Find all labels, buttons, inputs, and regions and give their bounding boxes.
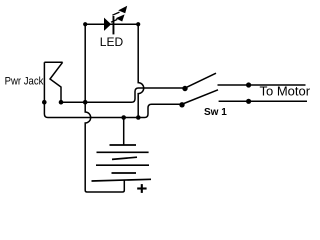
- wire top throw to motor: [218, 84, 306, 86]
- switch Sw1 bottom throw pin: [246, 99, 251, 104]
- junction LED cathode x W2: [136, 115, 141, 120]
- LED D1 cathode bar: [113, 16, 115, 34]
- node LED cathode corner: [136, 22, 140, 26]
- switch Sw1 bottom lever: [184, 90, 218, 104]
- wire bottom throw to motor: [219, 100, 307, 102]
- wire top (LED anode-cathode rail): [85, 23, 138, 25]
- wire right vertical (LED cathode down, with hop over switch wire): [138, 24, 144, 117]
- node jack sleeve pin: [42, 100, 47, 105]
- svg-text:To Motor: To Motor: [260, 84, 311, 99]
- power jack J1 sleeve contact: [44, 61, 62, 63]
- svg-text:LED: LED: [100, 35, 124, 49]
- battery B1 plates: [92, 145, 152, 181]
- junction battery top tap: [121, 115, 126, 120]
- wire left vertical (battery + rail, with hop over negative wire): [85, 24, 91, 192]
- LED D1 triangle: [104, 18, 111, 31]
- node LED anode corner: [83, 22, 87, 26]
- switch Sw1 bottom pole pin: [179, 102, 184, 107]
- node jack tip pin: [59, 100, 64, 105]
- LED D1 light arrow 1: [112, 6, 127, 16]
- LED D1 light arrow 2: [111, 14, 125, 22]
- wire W1 positive rail to top switch pole: [61, 88, 183, 102]
- wire bottom rail to battery +: [87, 180, 124, 192]
- power jack J1 tip spring contact: [50, 62, 63, 102]
- battery + symbol: [137, 184, 146, 193]
- svg-text:Pwr Jack: Pwr Jack: [5, 76, 45, 88]
- svg-text:Sw 1: Sw 1: [204, 107, 227, 118]
- switch Sw1 top pole pin: [182, 86, 187, 91]
- switch Sw1 top throw pin: [246, 82, 251, 87]
- junction W1 x left vertical: [83, 100, 88, 105]
- wire battery top tap: [123, 118, 125, 146]
- wire W2 negative rail to bottom switch pole: [44, 62, 180, 117]
- switch Sw1 top lever: [187, 73, 216, 87]
